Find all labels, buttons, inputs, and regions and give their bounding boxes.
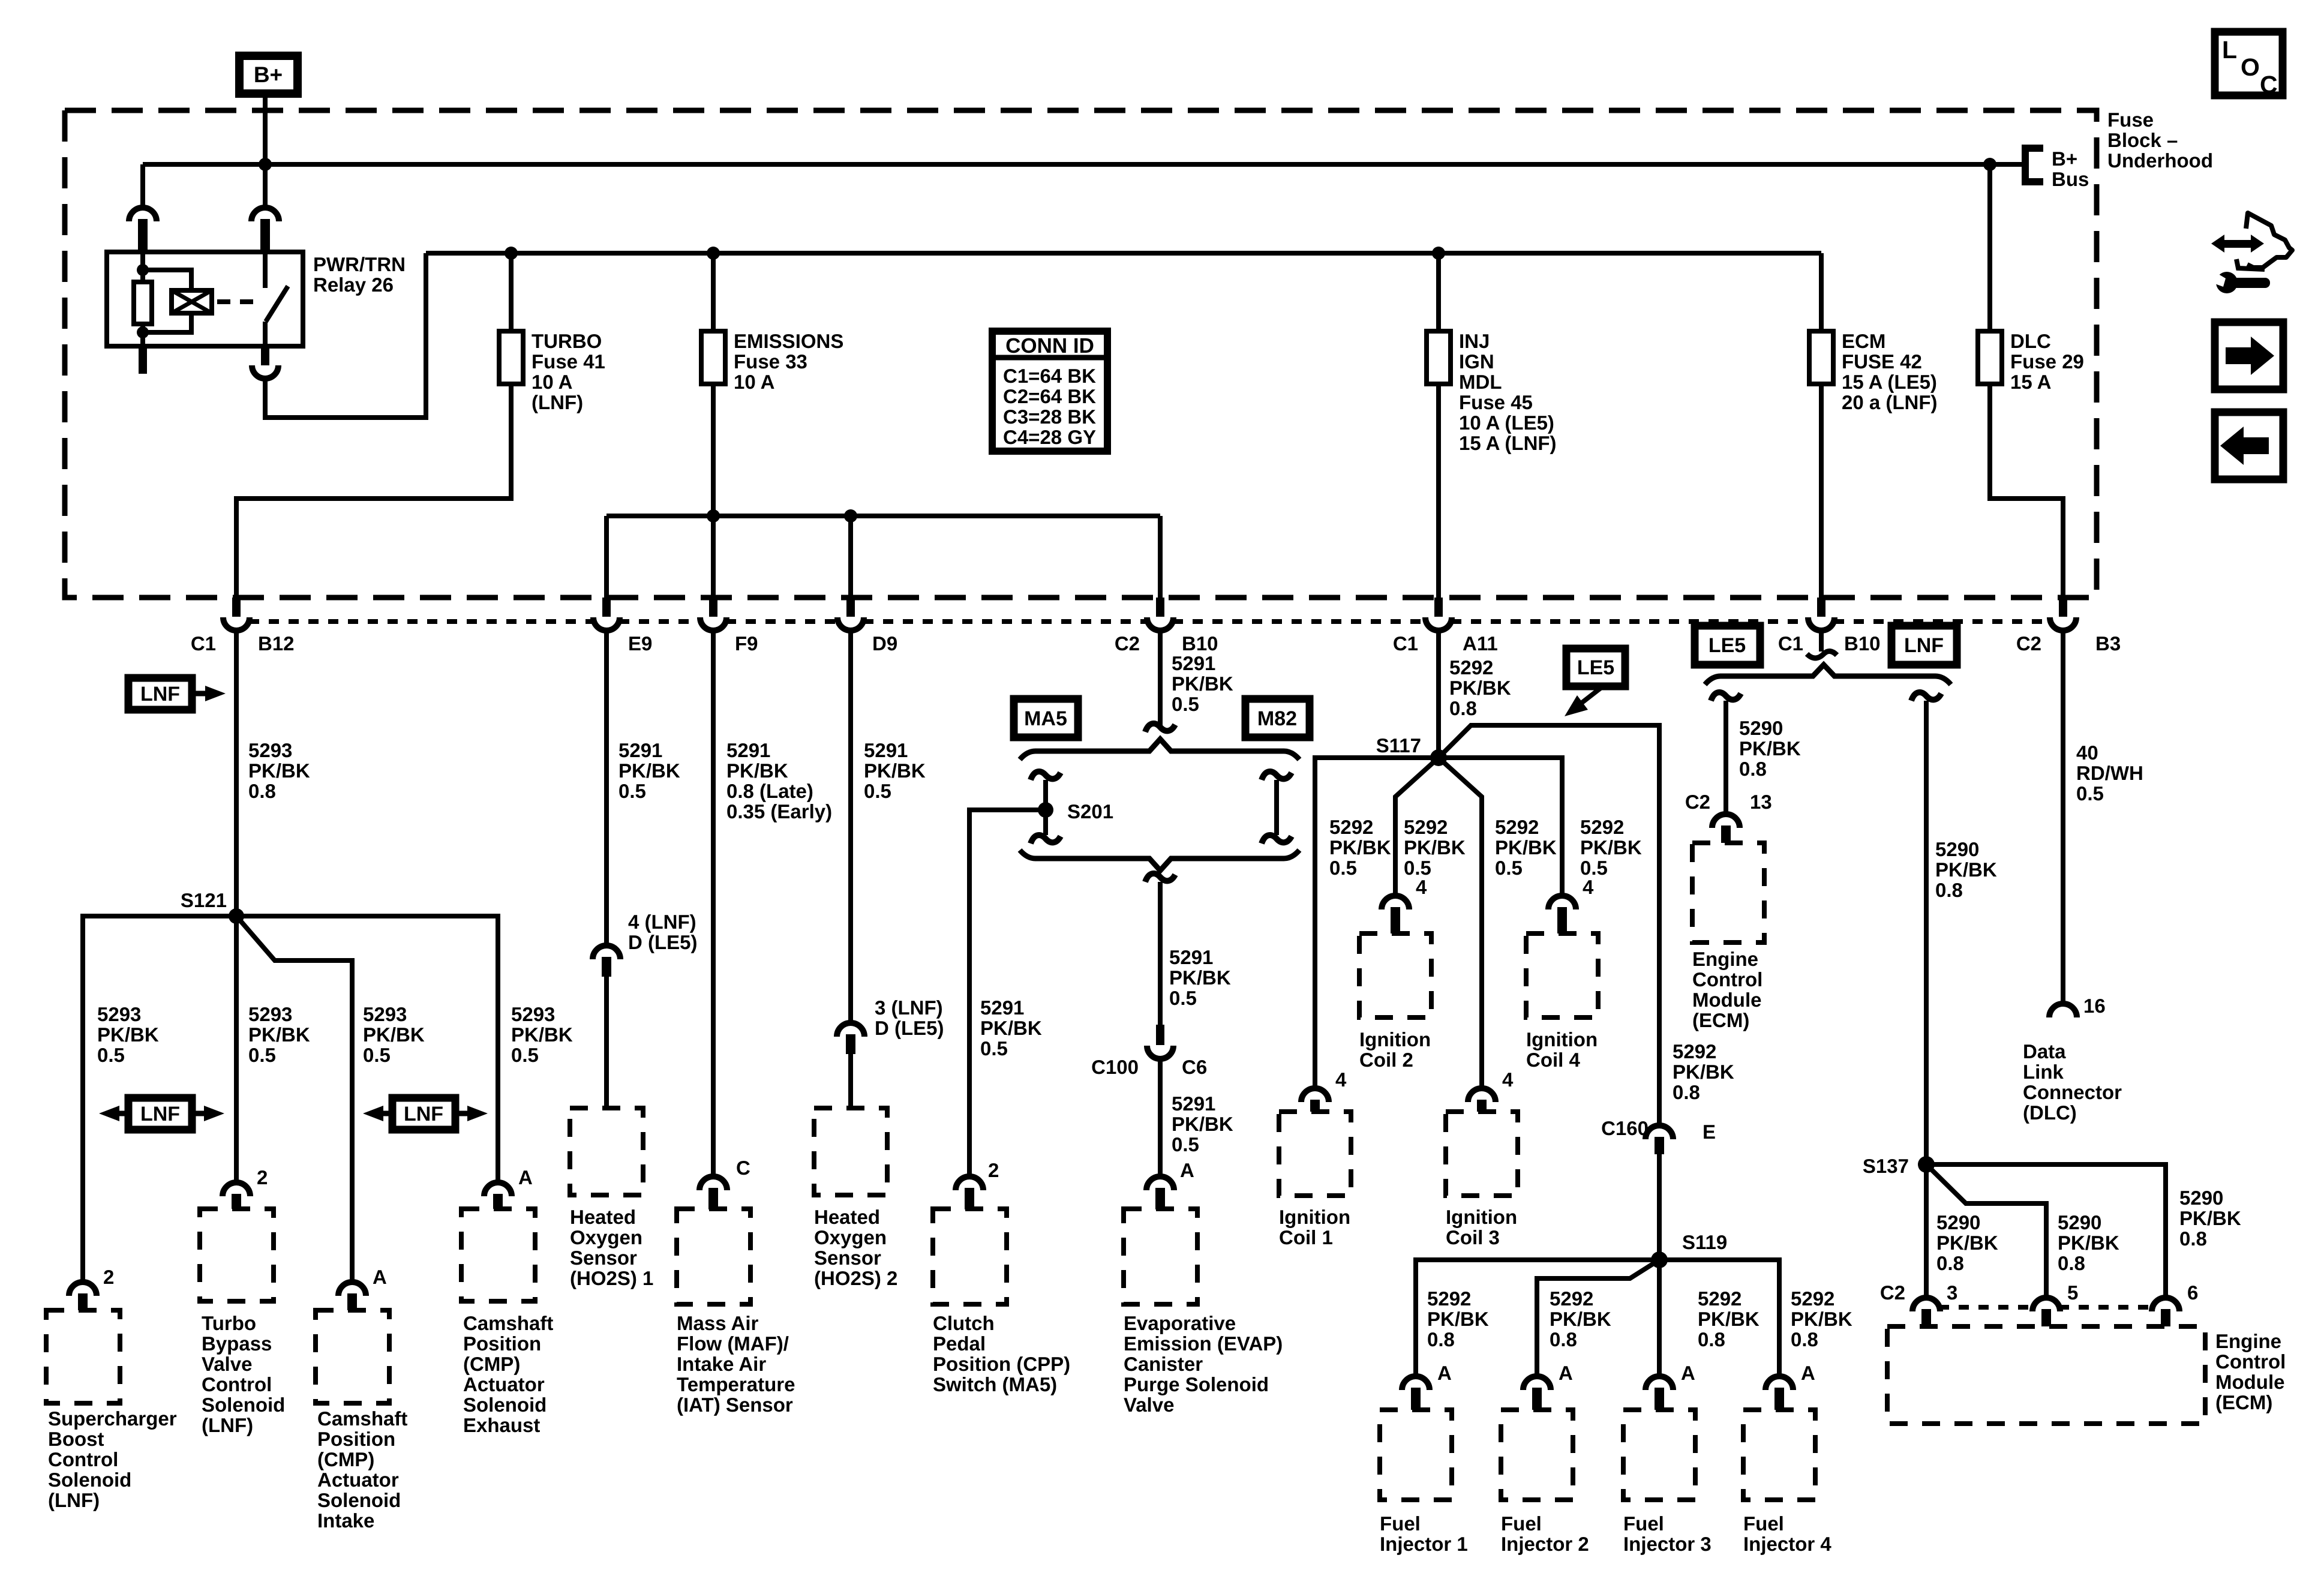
svg-text:4: 4 <box>1502 1068 1514 1091</box>
relay coil pin connector <box>129 208 157 221</box>
svg-text:Clutch: Clutch <box>933 1312 995 1334</box>
svg-text:LNF: LNF <box>1904 634 1944 657</box>
wire to pin D9 <box>848 516 853 598</box>
svg-text:5292: 5292 <box>1791 1287 1834 1310</box>
svg-text:Fuse 45: Fuse 45 <box>1459 391 1533 413</box>
svg-text:C: C <box>736 1157 750 1179</box>
wire S119 to fuel injector 1 <box>1416 1260 1659 1376</box>
svg-text:(DLC): (DLC) <box>2023 1101 2077 1124</box>
node S117 splice <box>1430 749 1447 766</box>
wire MA5 branch (S201 leg) <box>1031 772 1061 780</box>
svg-text:0.5: 0.5 <box>864 780 891 802</box>
wire S121 to CMP intake solenoid <box>236 916 352 1282</box>
svg-text:A: A <box>518 1166 533 1188</box>
svg-text:5293: 5293 <box>363 1003 407 1025</box>
wire coil pin to case bottom <box>140 334 145 346</box>
svg-text:13: 13 <box>1750 791 1772 813</box>
svg-text:0.8: 0.8 <box>2058 1252 2085 1274</box>
svg-text:5290: 5290 <box>1936 1211 1980 1233</box>
relay output stub and connector <box>261 346 269 365</box>
wire LE5 branch to ECM C2/13 <box>1711 692 1741 701</box>
svg-text:C3=28 BK: C3=28 BK <box>1003 406 1096 428</box>
svg-text:Valve: Valve <box>202 1353 252 1375</box>
component Fuel Injector 2 <box>1501 1410 1573 1500</box>
svg-text:Camshaft: Camshaft <box>317 1407 407 1430</box>
relay coil ground stub <box>139 346 147 374</box>
svg-text:C100: C100 <box>1091 1056 1139 1078</box>
svg-text:PK/BK: PK/BK <box>1427 1308 1489 1330</box>
svg-text:C6: C6 <box>1182 1056 1207 1078</box>
svg-text:RD/WH: RD/WH <box>2076 762 2143 784</box>
svg-text:(HO2S) 2: (HO2S) 2 <box>814 1267 897 1289</box>
wire emissions distribution <box>606 514 1160 518</box>
node emissions fuse tap <box>707 247 720 260</box>
svg-text:0.5: 0.5 <box>363 1044 391 1066</box>
connector fuel injector 4 pin A <box>1765 1376 1793 1390</box>
svg-text:5291: 5291 <box>726 739 770 761</box>
connector C160 <box>1646 1125 1673 1139</box>
svg-text:B10: B10 <box>1844 632 1881 655</box>
wire 5291 E9 <box>604 631 609 945</box>
wire to turbo fuse <box>509 253 514 384</box>
svg-text:PK/BK: PK/BK <box>248 1023 310 1046</box>
tag LE5 arrow <box>1566 649 1625 686</box>
svg-text:(IAT) Sensor: (IAT) Sensor <box>677 1394 793 1416</box>
connector ECM pin 3 <box>1912 1298 1940 1311</box>
wire to pin F9 <box>711 516 716 598</box>
svg-text:20 a (LNF): 20 a (LNF) <box>1842 391 1938 413</box>
connector DLC pin 16 <box>2049 1004 2077 1017</box>
wire to pin B10 (EVAP feed) <box>1158 516 1163 598</box>
svg-text:(CMP): (CMP) <box>463 1353 520 1375</box>
pin C1 B10 (ECM feed) <box>1817 598 1825 617</box>
svg-text:A: A <box>1437 1362 1452 1384</box>
wire bus to relay coil pin <box>140 164 145 208</box>
node relay coil bottom <box>137 326 149 338</box>
wire 5291 D9 <box>848 631 853 1023</box>
wire S119 to fuel injector 3 <box>1657 1260 1662 1376</box>
svg-text:PK/BK: PK/BK <box>864 760 926 782</box>
svg-text:Position: Position <box>463 1332 541 1355</box>
svg-text:A: A <box>373 1266 387 1288</box>
svg-text:O: O <box>2241 53 2260 81</box>
svg-text:0.8: 0.8 <box>1427 1328 1455 1350</box>
svg-text:(ECM): (ECM) <box>1692 1009 1749 1031</box>
svg-text:(LNF): (LNF) <box>48 1489 100 1511</box>
svg-text:5292: 5292 <box>1404 816 1448 838</box>
icon back arrow box <box>2215 412 2283 479</box>
svg-text:Ignition: Ignition <box>1446 1206 1517 1228</box>
fuse EMISSIONS Fuse 33 <box>701 331 725 384</box>
pin E9 <box>602 598 611 617</box>
svg-text:Relay 26: Relay 26 <box>313 274 394 296</box>
svg-text:EMISSIONS: EMISSIONS <box>734 330 843 352</box>
svg-text:PK/BK: PK/BK <box>248 760 310 782</box>
relay switch blade <box>266 286 288 322</box>
svg-text:PK/BK: PK/BK <box>1935 858 1997 881</box>
connector C1/C2 dashed line <box>249 619 594 624</box>
connector fuel injector 3 pin A <box>1646 1376 1673 1390</box>
svg-text:PK/BK: PK/BK <box>1936 1232 1998 1254</box>
svg-text:PK/BK: PK/BK <box>1169 966 1231 989</box>
component Fuel Injector 3 <box>1623 1410 1695 1500</box>
wire B+ to bus <box>263 98 268 164</box>
connector ignition coil 3 pin 4 <box>1468 1088 1496 1102</box>
svg-text:Heated: Heated <box>570 1206 636 1228</box>
svg-text:0.8: 0.8 <box>1791 1328 1818 1350</box>
svg-text:TURBO: TURBO <box>532 330 602 352</box>
wire S117 to ignition coil 3 <box>1439 758 1482 1088</box>
svg-text:Mass Air: Mass Air <box>677 1312 758 1334</box>
fuse DLC Fuse 29 <box>1978 331 2002 384</box>
wire S119 to fuel injector 4 <box>1659 1260 1779 1376</box>
svg-text:C2: C2 <box>1115 632 1140 655</box>
node S119 splice <box>1651 1251 1668 1268</box>
wire C160 to S119 <box>1657 1154 1662 1260</box>
wire S117 to ignition coil 4 <box>1439 758 1562 896</box>
wire relay output to fuse bus <box>265 253 426 418</box>
svg-text:Solenoid: Solenoid <box>48 1469 131 1491</box>
component Engine Control Module ECM (lower) <box>1887 1326 2205 1424</box>
svg-text:0.5: 0.5 <box>1169 987 1197 1009</box>
svg-text:0.8: 0.8 <box>1739 758 1767 780</box>
svg-text:D (LE5): D (LE5) <box>875 1017 944 1039</box>
svg-text:40: 40 <box>2076 742 2098 764</box>
tag MA5 <box>1014 699 1078 737</box>
component Ignition Coil 1 <box>1279 1112 1351 1196</box>
wire 5291 F9 to MAF <box>711 631 716 1176</box>
connector turbo bypass pin 2 <box>223 1182 250 1196</box>
svg-text:Injector 3: Injector 3 <box>1623 1533 1712 1555</box>
svg-text:Injector 1: Injector 1 <box>1380 1533 1468 1555</box>
svg-text:5290: 5290 <box>1935 838 1979 860</box>
svg-text:Fuel: Fuel <box>1380 1512 1421 1535</box>
wire S121 to supercharger solenoid <box>83 916 236 1282</box>
svg-text:5291: 5291 <box>1169 946 1213 968</box>
svg-text:D9: D9 <box>872 632 897 655</box>
svg-text:0.5: 0.5 <box>1495 857 1523 879</box>
svg-text:LNF: LNF <box>404 1103 443 1125</box>
wire LNF branch to S137 <box>1911 692 1941 701</box>
svg-text:PK/BK: PK/BK <box>1791 1308 1852 1330</box>
component Mass Air Flow MAF Intake Air Temperature IAT Sensor <box>677 1209 750 1304</box>
svg-text:D (LE5): D (LE5) <box>628 931 698 953</box>
component Heated Oxygen Sensor HO2S 2 <box>814 1108 887 1195</box>
connector inline below pin B10 <box>1819 629 1824 652</box>
svg-text:S119: S119 <box>1682 1231 1727 1253</box>
wire M82 branch leg <box>1262 772 1292 780</box>
svg-text:5292: 5292 <box>1698 1287 1742 1310</box>
svg-text:Control: Control <box>202 1373 272 1395</box>
connector ignition coil 4 pin 4 <box>1548 896 1576 909</box>
svg-text:C2: C2 <box>1685 791 1710 813</box>
svg-text:C4=28 GY: C4=28 GY <box>1003 426 1096 448</box>
svg-text:Fuse 33: Fuse 33 <box>734 350 807 373</box>
svg-text:Bypass: Bypass <box>202 1332 272 1355</box>
svg-text:Coil 4: Coil 4 <box>1526 1049 1580 1071</box>
tag M82 <box>1245 699 1310 737</box>
relay actuation dashed link <box>217 299 262 304</box>
wire S121 to turbo bypass solenoid <box>234 916 239 1182</box>
svg-text:A: A <box>1681 1362 1695 1384</box>
component Engine Control Module ECM (upper) <box>1692 843 1764 942</box>
fuse INJ IGN MDL Fuse 45 <box>1427 331 1451 384</box>
svg-text:Flow (MAF)/: Flow (MAF)/ <box>677 1332 789 1355</box>
tag LNF arrows 2 <box>392 1098 455 1130</box>
svg-text:0.8: 0.8 <box>1550 1328 1577 1350</box>
svg-text:5291: 5291 <box>1172 652 1215 674</box>
connector ECM pin C2 13 <box>1712 814 1740 828</box>
icon forward arrow box <box>2215 322 2283 389</box>
connector CPP pin 2 <box>956 1176 983 1190</box>
svg-text:Fuse: Fuse <box>2107 109 2154 131</box>
svg-text:5292: 5292 <box>1495 816 1539 838</box>
svg-text:Sensor: Sensor <box>814 1247 881 1269</box>
svg-text:6: 6 <box>2187 1281 2198 1304</box>
svg-text:Intake: Intake <box>317 1509 374 1532</box>
svg-text:C2: C2 <box>1880 1281 1905 1304</box>
pin C2 B3 <box>2059 598 2067 617</box>
connector inline HO2S2 <box>837 1023 864 1037</box>
svg-text:Injector 4: Injector 4 <box>1743 1533 1831 1555</box>
svg-text:4: 4 <box>1416 876 1427 898</box>
connector CMP exhaust pin A <box>484 1182 512 1196</box>
tag LNF arrows 1 <box>128 1098 192 1130</box>
component Ignition Coil 2 <box>1359 933 1431 1017</box>
connector inline HO2S1 <box>593 945 620 959</box>
svg-text:Position (CPP): Position (CPP) <box>933 1353 1070 1375</box>
svg-text:15 A (LE5): 15 A (LE5) <box>1842 371 1937 393</box>
svg-text:S121: S121 <box>181 889 227 911</box>
svg-text:0.8: 0.8 <box>248 780 276 802</box>
component Supercharger Boost Control Solenoid (LNF) <box>46 1310 120 1403</box>
node S121 splice <box>229 908 244 924</box>
svg-text:5291: 5291 <box>618 739 662 761</box>
svg-text:5292: 5292 <box>1329 816 1373 838</box>
svg-text:5290: 5290 <box>1739 717 1783 739</box>
svg-text:(LNF): (LNF) <box>532 391 583 413</box>
wire S137 to ECM pin 6 <box>1926 1164 2166 1298</box>
svg-text:Module: Module <box>2215 1371 2284 1393</box>
svg-text:4: 4 <box>1335 1068 1347 1091</box>
svg-text:LE5: LE5 <box>1577 656 1614 679</box>
connector MAF pin C <box>699 1176 727 1190</box>
svg-text:Control: Control <box>1692 968 1762 990</box>
wire to pin E9 <box>604 516 609 598</box>
brace merge bottom <box>1020 850 1299 870</box>
svg-text:5292: 5292 <box>1580 816 1624 838</box>
svg-text:5292: 5292 <box>1550 1287 1593 1310</box>
svg-text:Heated: Heated <box>814 1206 880 1228</box>
svg-text:C1=64 BK: C1=64 BK <box>1003 365 1096 387</box>
component Camshaft Position CMP Actuator Solenoid Intake <box>316 1310 389 1403</box>
connector ECM C2 dashed line <box>1939 1305 2034 1310</box>
relay box <box>107 252 303 346</box>
svg-text:0.5: 0.5 <box>980 1037 1008 1059</box>
node B+ bus to DLC fuse <box>1983 158 1996 171</box>
svg-text:0.8: 0.8 <box>1449 697 1477 719</box>
relay coil element <box>172 290 212 313</box>
svg-text:Actuator: Actuator <box>463 1373 545 1395</box>
svg-text:E9: E9 <box>628 632 652 655</box>
relay coil winding leads <box>143 270 191 290</box>
icon vehicle with wrench <box>2211 235 2224 253</box>
svg-text:Valve: Valve <box>1124 1394 1174 1416</box>
relay switch pin connector <box>251 208 279 221</box>
svg-text:Injector 2: Injector 2 <box>1501 1533 1589 1555</box>
connector ignition coil 2 pin 4 <box>1382 896 1409 909</box>
node emissions dist 2 <box>844 509 857 523</box>
wire S117 to ignition coil 2 <box>1395 758 1439 896</box>
LOC reference box <box>2215 32 2283 95</box>
svg-text:LNF: LNF <box>140 1103 180 1125</box>
wire to HO2S2 <box>848 1054 853 1108</box>
wire S119 to fuel injector 2 <box>1537 1260 1659 1376</box>
svg-text:Intake Air: Intake Air <box>677 1353 766 1375</box>
wire 5291 B10 <box>1158 631 1163 729</box>
component Heated Oxygen Sensor HO2S 1 <box>570 1108 643 1195</box>
svg-text:Solenoid: Solenoid <box>463 1394 547 1416</box>
connector fuel injector 1 pin A <box>1402 1376 1430 1390</box>
svg-text:5293: 5293 <box>511 1003 555 1025</box>
svg-text:M82: M82 <box>1257 707 1297 730</box>
svg-text:10 A: 10 A <box>532 371 572 393</box>
svg-text:0.5: 0.5 <box>2076 782 2104 804</box>
component Evaporative Emission EVAP Canister Purge Solenoid Valve <box>1124 1209 1197 1304</box>
svg-text:15 A (LNF): 15 A (LNF) <box>1459 432 1557 454</box>
svg-text:(HO2S) 1: (HO2S) 1 <box>570 1267 653 1289</box>
svg-text:Control: Control <box>48 1448 118 1470</box>
svg-text:C1: C1 <box>191 632 216 655</box>
svg-text:0.8: 0.8 <box>2179 1227 2207 1250</box>
svg-text:CONN ID: CONN ID <box>1005 334 1094 358</box>
svg-text:C: C <box>2260 71 2278 98</box>
svg-text:C160: C160 <box>1601 1117 1649 1139</box>
component Clutch Pedal Position CPP Switch MA5 <box>933 1209 1007 1304</box>
component Ignition Coil 3 <box>1446 1112 1518 1196</box>
svg-text:0.8: 0.8 <box>1698 1328 1725 1350</box>
wire B+ bus horizontal <box>143 162 2024 167</box>
connector C100 C6 <box>1156 1025 1164 1045</box>
svg-text:5291: 5291 <box>1172 1092 1215 1115</box>
connector EVAP pin A <box>1146 1176 1174 1190</box>
svg-text:2: 2 <box>103 1266 114 1288</box>
svg-text:S117: S117 <box>1376 734 1421 757</box>
svg-text:Link: Link <box>2023 1061 2064 1083</box>
svg-text:B12: B12 <box>258 632 295 655</box>
svg-text:MDL: MDL <box>1459 371 1502 393</box>
node emissions dist 1 <box>707 509 720 523</box>
svg-text:5293: 5293 <box>97 1003 141 1025</box>
svg-text:Turbo: Turbo <box>202 1312 256 1334</box>
svg-text:2: 2 <box>988 1159 999 1181</box>
svg-text:5290: 5290 <box>2179 1187 2223 1209</box>
svg-text:DLC: DLC <box>2010 330 2051 352</box>
CONN ID table <box>992 331 1107 451</box>
svg-text:Actuator: Actuator <box>317 1469 399 1491</box>
svg-text:0.5: 0.5 <box>248 1044 276 1066</box>
wire 5292 A11 to S117 <box>1436 631 1441 758</box>
svg-text:Position: Position <box>317 1428 395 1450</box>
svg-text:PK/BK: PK/BK <box>1449 677 1511 699</box>
wire 5291 S201 to CPP switch <box>969 810 1046 1176</box>
svg-text:10 A: 10 A <box>734 371 774 393</box>
svg-text:5292: 5292 <box>1449 656 1493 679</box>
node S201 splice <box>1038 802 1053 818</box>
svg-text:C2=64 BK: C2=64 BK <box>1003 385 1096 407</box>
svg-text:Pedal: Pedal <box>933 1332 986 1355</box>
svg-text:Switch (MA5): Switch (MA5) <box>933 1373 1057 1395</box>
wire to ECM fuse and pin B10 <box>1819 253 1824 598</box>
svg-text:10 A (LE5): 10 A (LE5) <box>1459 412 1554 434</box>
svg-text:0.5: 0.5 <box>511 1044 539 1066</box>
node relay coil top <box>137 264 149 276</box>
svg-text:C1: C1 <box>1393 632 1418 655</box>
wire to C100 connector <box>1158 882 1163 1029</box>
svg-text:PK/BK: PK/BK <box>618 760 680 782</box>
wire DLC fuse to pin B3 <box>1990 384 2063 598</box>
pin C1 B12 <box>232 598 241 617</box>
wire to emissions fuse <box>711 253 716 384</box>
node B+ wire junction <box>259 158 272 171</box>
svg-text:0.8: 0.8 <box>1673 1081 1700 1103</box>
svg-text:A: A <box>1180 1159 1194 1181</box>
svg-text:Supercharger: Supercharger <box>48 1407 177 1430</box>
svg-text:Engine: Engine <box>1692 948 1758 970</box>
svg-text:Oxygen: Oxygen <box>570 1226 642 1248</box>
svg-text:Temperature: Temperature <box>677 1373 795 1395</box>
svg-text:Bus: Bus <box>2052 168 2089 190</box>
svg-text:IGN: IGN <box>1459 350 1494 373</box>
svg-text:B+: B+ <box>2052 148 2077 170</box>
svg-text:PK/BK: PK/BK <box>2058 1232 2119 1254</box>
svg-text:Fuel: Fuel <box>1743 1512 1784 1535</box>
wire C6 to EVAP valve <box>1158 1059 1163 1176</box>
component Fuel Injector 1 <box>1380 1410 1452 1500</box>
svg-text:FUSE 42: FUSE 42 <box>1842 350 1922 373</box>
svg-text:PK/BK: PK/BK <box>1404 836 1466 858</box>
svg-text:Solenoid: Solenoid <box>317 1489 401 1511</box>
svg-text:Fuse 29: Fuse 29 <box>2010 350 2084 373</box>
svg-text:Oxygen: Oxygen <box>814 1226 887 1248</box>
B+ Bus terminal bracket <box>2025 148 2043 182</box>
svg-text:PK/BK: PK/BK <box>1329 836 1391 858</box>
wire emissions fuse to splice line <box>711 384 716 516</box>
svg-text:F9: F9 <box>735 632 758 655</box>
svg-text:3: 3 <box>1947 1281 1957 1304</box>
wire S137 to ECM pin 3 <box>1924 1164 1929 1298</box>
fuse ECM FUSE 42 <box>1809 331 1833 384</box>
svg-text:0.5: 0.5 <box>1172 1133 1199 1155</box>
wire S117 to C160 <box>1439 725 1659 1125</box>
svg-text:Evaporative: Evaporative <box>1124 1312 1236 1334</box>
B+ battery feed box <box>239 56 298 94</box>
svg-text:4: 4 <box>1583 876 1594 898</box>
svg-text:PK/BK: PK/BK <box>97 1023 159 1046</box>
svg-text:B3: B3 <box>2095 632 2121 655</box>
svg-text:0.5: 0.5 <box>1329 857 1357 879</box>
svg-text:Boost: Boost <box>48 1428 104 1450</box>
tag LE5 <box>1695 626 1760 665</box>
svg-text:PK/BK: PK/BK <box>2179 1207 2241 1229</box>
svg-text:4 (LNF): 4 (LNF) <box>628 911 696 933</box>
connector supercharger solenoid pin 2 <box>69 1282 97 1296</box>
tag LNF <box>1891 626 1957 665</box>
component Camshaft Position CMP Actuator Solenoid Exhaust <box>461 1209 535 1301</box>
node turbo fuse tap <box>505 247 518 260</box>
connector ECM pin 5 <box>2032 1298 2060 1311</box>
svg-text:PK/BK: PK/BK <box>1172 1113 1233 1135</box>
